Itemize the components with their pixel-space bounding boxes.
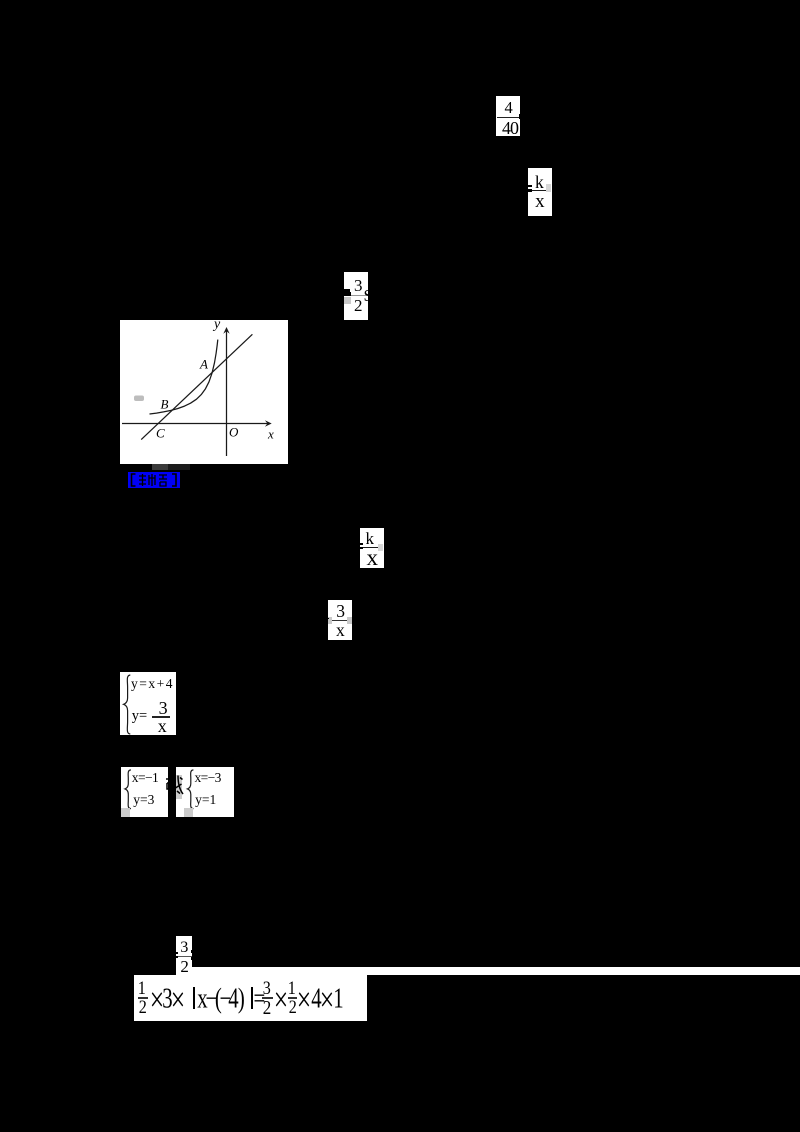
svg-text:O: O xyxy=(229,425,239,440)
svg-text:y: y xyxy=(212,320,221,332)
svg-text:C: C xyxy=(156,426,165,441)
svg-text:x: x xyxy=(267,427,274,442)
svg-text:A: A xyxy=(199,357,208,372)
svg-text:B: B xyxy=(161,397,169,412)
